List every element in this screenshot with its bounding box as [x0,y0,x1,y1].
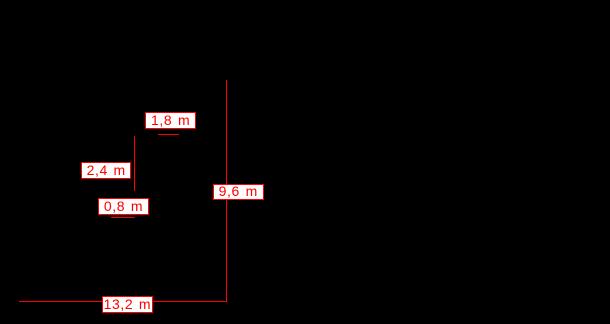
wire: vertical dimension line 9,6 m [226,80,227,302]
wire: short dash under 1,8 m label [158,134,179,135]
wire: vertical dimension line 2,4 m [134,136,135,191]
node: label 1,8 m [145,112,196,129]
node: label 2,4 m [81,162,131,179]
node: label 0,8 m [98,198,149,215]
wire: short dash under 0,8 m label [111,217,135,218]
wire: horizontal dimension line 13,2 m [19,301,227,302]
node: label 9,6 m [213,184,264,201]
node: label 13,2 m [102,296,153,313]
